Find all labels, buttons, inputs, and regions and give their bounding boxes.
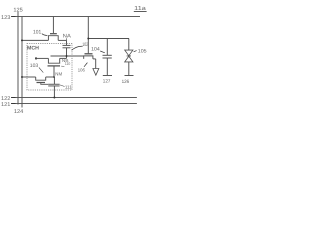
svg-text:121: 121	[1, 102, 10, 108]
terminal 126 bar	[125, 75, 134, 77]
wire: Q101 drain lead to node NA	[58, 39, 66, 41]
wire: NA capacitor to node NB	[66, 48, 68, 56]
capacitor 104 bottom plate	[103, 57, 112, 59]
node: rail branch junction	[87, 38, 89, 40]
diode 105 lower triangle	[125, 56, 133, 62]
leader for 106	[84, 63, 87, 67]
svg-text:NM: NM	[55, 71, 62, 76]
leader for 121	[11, 103, 16, 105]
wire: Q102 gate lead from line 123 branch	[87, 39, 89, 54]
svg-text:NA: NA	[63, 33, 72, 39]
diode 105 middle bar	[127, 55, 131, 57]
svg-text:103: 103	[30, 63, 39, 69]
transistor Q101 gate bar	[50, 33, 57, 35]
transistor Q103 gate bar below channel	[37, 82, 46, 84]
wire: Q110 gate down to node NM	[53, 66, 55, 77]
terminal 127 bar	[103, 75, 112, 77]
leader for 105	[134, 51, 137, 52]
svg-text:104: 104	[91, 47, 100, 53]
leader for 104	[100, 51, 105, 53]
transistor Q110 channel (opens up)	[48, 58, 59, 63]
transistor Q103 channel (opens up)	[36, 77, 46, 80]
leader for 122	[11, 97, 16, 99]
svg-text:106: 106	[78, 67, 86, 72]
wire: rail corner down to diode 105	[128, 39, 130, 51]
leader for 111	[60, 85, 65, 87]
capacitor 104 top plate	[103, 54, 112, 56]
svg-text:126: 126	[122, 79, 130, 85]
capacitor at node NA top plate	[63, 44, 71, 46]
wire: capacitor 104 top lead	[106, 39, 108, 56]
transistor Q102 channel bump	[84, 56, 93, 59]
transistor Q110 gate bar below channel	[48, 65, 61, 67]
wire: Q101 source lead to line 124	[22, 39, 48, 41]
wire: diode 105 to terminal 126	[128, 62, 130, 75]
node NM junction	[53, 76, 55, 78]
wire: Q110 left lead stub	[36, 57, 48, 59]
underline for 11a	[134, 10, 147, 12]
wire: top control line 123	[12, 16, 140, 18]
capacitor at node NA bottom plate	[63, 47, 71, 49]
svg-text:102: 102	[82, 42, 88, 48]
wire: vertical signal line 124	[21, 17, 23, 108]
leader tick for NA	[66, 38, 68, 40]
svg-text:127: 127	[103, 78, 111, 84]
wire: second horizontal rail	[88, 38, 129, 40]
wire: bottom power line 122	[12, 97, 137, 99]
svg-text:MCH: MCH	[27, 46, 39, 52]
wire: branch from line 123 down	[87, 17, 89, 39]
dashed box MCH	[27, 44, 72, 91]
svg-text:123: 123	[1, 15, 10, 21]
svg-text:101: 101	[33, 29, 41, 35]
wire: node NB stub down to Q110 right lead	[66, 56, 68, 58]
terminal square on Q110 left lead	[35, 57, 37, 59]
wire: Q110 right lead to node NB	[60, 57, 67, 59]
leader for 123	[11, 16, 16, 18]
capacitor 111 top plate	[48, 83, 59, 85]
node: Q101 source on line 124	[21, 39, 23, 41]
transistor Q101 channel bump	[48, 36, 58, 41]
diode 105 upper triangle	[125, 50, 133, 56]
junction dots	[21, 38, 89, 99]
wire: node NA vertical	[66, 40, 68, 45]
leader for 103	[39, 68, 43, 73]
svg-text:105: 105	[138, 49, 147, 55]
svg-text:125: 125	[13, 8, 22, 14]
wire: Q103 source lead to line 124	[22, 76, 36, 78]
wire: Q103 gate lead down and right	[41, 83, 48, 84]
wire: capacitor 104 to terminal 127	[106, 58, 108, 75]
output arrow to panel	[93, 69, 99, 76]
leader for 110	[61, 65, 64, 67]
wire: bottom power line 121	[12, 103, 137, 105]
wire: Q102 drain down to output arrow	[95, 59, 97, 69]
wire: gate lead of Q101 from line 123	[52, 17, 54, 34]
node: capacitor 111 on line 122	[53, 97, 55, 99]
svg-text:111: 111	[65, 85, 72, 90]
wire: Q103 drain lead to node NM	[46, 76, 54, 78]
svg-text:124: 124	[14, 109, 23, 115]
svg-text:110: 110	[65, 61, 71, 66]
wire: Q102 drain lead	[93, 58, 96, 60]
transistor Q102 gate bar	[85, 53, 93, 55]
leader for 102	[72, 46, 83, 50]
capacitor 111 bottom plate	[48, 85, 59, 87]
node NB junction	[66, 55, 68, 57]
wire: vertical signal line 125	[17, 12, 19, 105]
wire: node NB horizontal	[51, 55, 84, 57]
leader for 101	[42, 34, 48, 36]
node: Q103 source on line 124	[21, 76, 23, 78]
wire: node NM down to capacitor 111	[53, 77, 55, 84]
wire: capacitor 111 to line 122	[53, 86, 55, 98]
